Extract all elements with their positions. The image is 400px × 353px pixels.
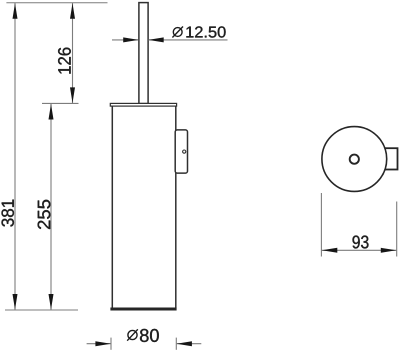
dimension 255 line (50, 103, 52, 310)
diameter symbol 12.50 (172, 27, 183, 38)
dimension 126 label (58, 48, 71, 74)
dimension O80 ext line right (175, 338, 177, 350)
dimension O12.50 left tail (112, 39, 138, 41)
extension line bottom level (5, 309, 78, 311)
dimension O12.50 left arrow (123, 37, 139, 42)
dimension 381 arrow down (13, 294, 18, 310)
dimension 93 ext line left (320, 193, 322, 257)
dimension 255 arrow down (49, 294, 54, 310)
dimension 93 right arrow (381, 248, 397, 253)
dimension 126 arrow down (70, 87, 75, 103)
dimension O80 left arrow (95, 341, 111, 346)
top-view body circle (322, 127, 387, 192)
top-view wall tab (381, 148, 398, 169)
dimension 255 arrow up (49, 104, 54, 120)
dimension 381 label (2, 200, 14, 227)
brush rod (front view) (139, 3, 148, 104)
dimension O80 left tail (87, 343, 111, 345)
dimension O12.50 right arrow (148, 37, 164, 42)
dimension 381 arrow up (13, 3, 18, 19)
diameter symbol 80 (127, 329, 138, 340)
extension line top (rod tip level) (6, 2, 107, 4)
bracket screw hole (183, 150, 186, 153)
cylinder body (112, 106, 176, 308)
dimension 255 label (38, 200, 51, 229)
dimension 93 line (321, 249, 396, 251)
extension line lid level (42, 102, 79, 104)
dimension O80 right arrow (176, 341, 192, 346)
dimension 93 label (353, 236, 369, 249)
dimension 93 left arrow (322, 248, 338, 253)
dimension 80 label (140, 329, 159, 342)
dimension O12.50 right tail (148, 39, 227, 41)
dimension O80 ext line left (110, 338, 112, 350)
dimension 126 line (72, 3, 74, 104)
lid flange (110, 103, 176, 106)
dimension 126 arrow up (70, 3, 75, 19)
top-view rod hole (350, 155, 359, 164)
dimension O80 right tail (177, 343, 202, 345)
wall bracket (front view) (175, 130, 187, 173)
bottom flange (110, 308, 176, 311)
dimension 93 ext line right (396, 202, 398, 257)
dimension 381 line (14, 3, 16, 310)
dimension 12.50 label (186, 26, 225, 37)
